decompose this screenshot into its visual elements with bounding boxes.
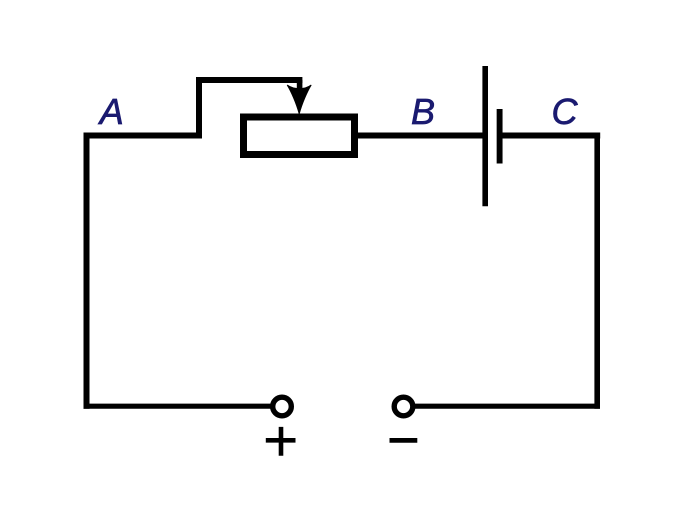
- svg-text:A: A: [98, 91, 124, 132]
- svg-text:C: C: [552, 91, 579, 132]
- wire: left vertical (A to + terminal): [84, 133, 90, 409]
- svg-text:B: B: [411, 91, 435, 132]
- wire: bottom-right horizontal (to - terminal): [414, 404, 600, 409]
- battery short plate (negative): [497, 109, 503, 164]
- wiper arrowhead: [287, 85, 311, 114]
- wire: bottom-left horizontal (to + terminal): [84, 404, 272, 409]
- terminal circle +: [273, 397, 292, 416]
- wire: right vertical: [594, 133, 600, 409]
- plus sign label: [266, 427, 296, 456]
- wire: node B (box to battery): [354, 133, 484, 139]
- wire: wiper jog vertical: [196, 80, 202, 139]
- potentiometer body (rheostat box): [244, 117, 355, 155]
- wire: top-left horizontal at node A: [84, 133, 203, 139]
- wire: wiper stub down: [297, 80, 303, 91]
- wire: node C (battery to right corner): [500, 133, 601, 139]
- wire: wiper top horizontal: [196, 77, 302, 83]
- terminal circle -: [394, 397, 413, 416]
- minus sign label: [390, 438, 418, 443]
- battery long plate (positive): [482, 66, 488, 206]
